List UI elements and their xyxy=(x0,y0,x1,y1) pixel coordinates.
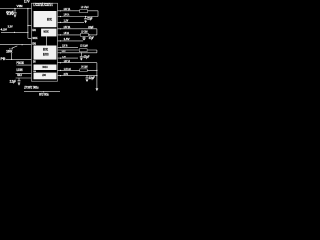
svg-text:L1 4.7µH: L1 4.7µH xyxy=(81,5,89,9)
svg-text:1.2V 1A: 1.2V 1A xyxy=(64,59,71,63)
svg-text:2.5V: 2.5V xyxy=(64,74,69,76)
svg-text:MODE: MODE xyxy=(44,30,49,34)
svg-text:LTC3371 TA01a: LTC3371 TA01a xyxy=(24,85,39,90)
svg-text:22µF: 22µF xyxy=(89,76,96,80)
svg-text:PB: PB xyxy=(1,57,6,61)
svg-text:100k: 100k xyxy=(6,49,13,53)
svg-text:1.8V: 1.8V xyxy=(62,56,66,58)
svg-text:3.3V 1A: 3.3V 1A xyxy=(64,7,71,11)
svg-text:1.1V 2A: 1.1V 2A xyxy=(64,67,72,71)
svg-text:BUCK3: BUCK3 xyxy=(43,52,49,56)
svg-text:L2 4.7µH: L2 4.7µH xyxy=(81,30,87,34)
svg-text:L4 2.2µH: L4 2.2µH xyxy=(81,65,87,69)
svg-text:2.2µF: 2.2µF xyxy=(10,79,17,83)
svg-text:3.3V: 3.3V xyxy=(62,51,66,53)
svg-text:6.3V: 6.3V xyxy=(7,14,15,16)
svg-text:22µF: 22µF xyxy=(87,16,93,20)
svg-text:2.7V: 2.7V xyxy=(24,0,30,4)
svg-text:VIN: VIN xyxy=(17,4,24,8)
svg-text:LDOIN: LDOIN xyxy=(17,68,23,72)
svg-text:BUCK1: BUCK1 xyxy=(47,18,52,22)
svg-text:2.5V 2A: 2.5V 2A xyxy=(64,25,71,29)
svg-text:4.2V: 4.2V xyxy=(1,28,8,32)
svg-text:47µF: 47µF xyxy=(83,55,89,59)
svg-text:PGOOD: PGOOD xyxy=(17,61,25,65)
svg-text:22µF: 22µF xyxy=(88,25,93,29)
svg-text:BUCK4: BUCK4 xyxy=(43,65,48,69)
svg-text:LTC3371/LTC3371-1: LTC3371/LTC3371-1 xyxy=(33,2,53,7)
svg-text:LDO: LDO xyxy=(42,73,46,77)
svg-text:EN2: EN2 xyxy=(32,43,36,45)
svg-text:3371 TA01a: 3371 TA01a xyxy=(39,92,49,96)
svg-text:47µF: 47µF xyxy=(89,36,94,40)
svg-text:BUCK2: BUCK2 xyxy=(43,47,48,51)
